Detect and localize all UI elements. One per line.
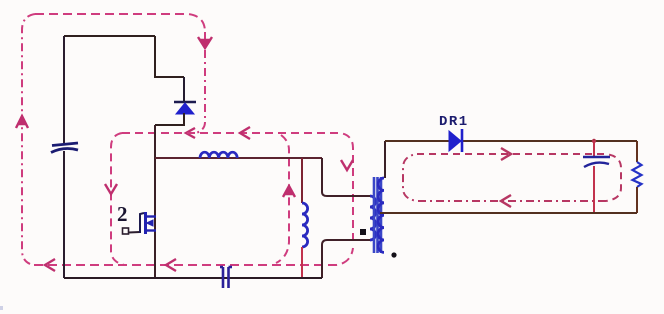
wire: diode D1 bottom lead, jog left [155,113,184,125]
transformer T1 core [374,177,381,253]
wire: step to transformer primary top [322,158,370,196]
diode DR1 [449,129,462,152]
svg-text:2: 2 [117,202,128,226]
transistor Q1 (MOSFET) [140,212,156,234]
node: junction mid rail to winding branch [301,158,303,203]
current loop 4 (output loop, dashed crimson) [403,154,621,201]
loop 2 left down arrow [105,184,117,194]
loop 2 top left arrow [240,127,250,139]
capacitor C3 (output cap) [583,157,610,167]
decorative corner mark [0,306,3,310]
loop 1 up arrow [16,116,28,128]
loop 4 right arrow (top) [501,148,511,160]
wire: step down from top rail [155,36,184,77]
current loop 1 (outer input loop, dashed crimson) [22,14,353,265]
wire: secondary top lead up [384,141,386,178]
secondary phase dot [391,252,396,257]
loop 3 up arrow [283,186,295,197]
wire: bottom rail [64,277,322,279]
transistor Q1 (MOSFET) gate terminal square [123,228,129,234]
wire: output cap branch upper (red) [593,141,595,156]
node: output cap junction dot [592,139,596,143]
current loop 2 (middle loop, dashed crimson) [111,133,353,265]
wire: mid rail with inductor [155,157,322,159]
resistor R1 (load) [633,162,642,187]
transformer T1 primary winding [370,196,376,240]
inductor L1 [200,152,237,158]
wire: output right vertical lower [636,187,638,213]
wire: main switch vertical [154,125,156,278]
wire: input top rail [64,35,155,37]
loop 1 merge arrowhead at node (190,133) [186,128,195,138]
loop 1 down arrow [198,37,212,48]
diode D1 (clamp diode, points up) [174,102,196,114]
current loop 3 (inner vertical dashed near x=289) [276,135,289,263]
inductor L2 (vertical winding) [302,203,308,247]
loop 4 left arrow (bottom) [501,195,511,207]
transformer T1 secondary winding [378,178,384,252]
wire: output cap branch lower (red) [593,166,595,213]
wire: output top rail [385,140,637,142]
wire: secondary tap lead [380,212,386,214]
capacitor C1 (input cap) [51,143,78,153]
loop 2 right down arrow [341,160,353,170]
wire: diode D1 top lead [183,77,185,101]
wire: output bottom rail [386,212,637,214]
primary phase dot [360,229,366,235]
wire: gate lead [129,231,141,234]
loop 1 bottom left arrow a [45,259,55,271]
wire: transformer primary bottom return [322,240,370,278]
capacitor C2 (coupling cap on bottom rail) [220,267,232,288]
svg-text:DR1: DR1 [439,114,469,130]
wire: below input cap down to bottom rail [63,151,65,278]
wire: output right vertical upper [636,141,638,162]
loop 1 bottom left arrow b [166,259,176,271]
wire: winding branch lower (red segment) [301,247,303,278]
wire: input left vertical (cap branch) [63,36,65,143]
